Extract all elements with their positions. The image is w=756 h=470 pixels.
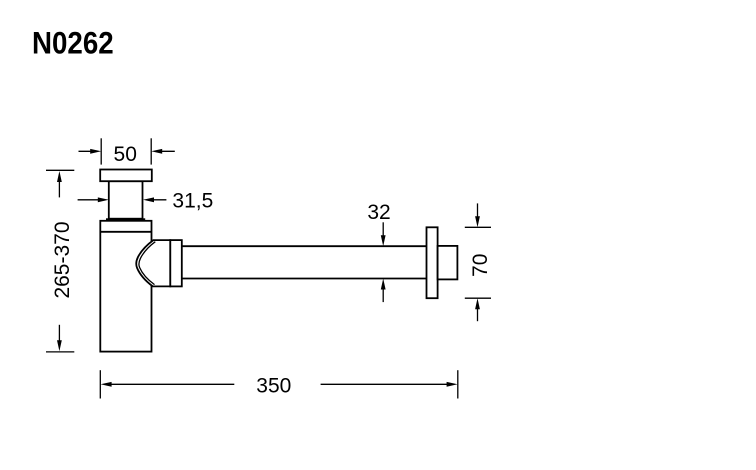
horizontal pipe: [182, 246, 427, 278]
wall flange: [427, 227, 438, 298]
dim 350 right tick: [457, 370, 459, 398]
dim 32 up arrow: [382, 289, 384, 302]
svg-text:50: 50: [114, 143, 137, 166]
bottle body: [100, 221, 151, 352]
title N0262: [32, 26, 114, 61]
dim 350 left tick: [99, 370, 101, 398]
elbow inner contour: [139, 242, 155, 285]
coupling nut: [170, 240, 182, 286]
dim 265-370 down arrow: [58, 325, 60, 341]
tube rim ring: [106, 218, 145, 221]
svg-text:265-370: 265-370: [51, 221, 74, 298]
dim 350 right segment: [321, 383, 447, 385]
dim 70 bottom tick: [465, 297, 491, 299]
inlet tube: [109, 181, 143, 219]
svg-text:350: 350: [256, 375, 291, 398]
dim 31,5 right arrow: [149, 199, 166, 201]
svg-text:32: 32: [367, 201, 390, 224]
elbow outlet: [136, 240, 170, 286]
dim 50 right arrow: [157, 150, 175, 152]
svg-text:N0262: N0262: [32, 26, 114, 61]
dim 70 down arrow: [477, 203, 479, 216]
dim 70 top tick: [465, 226, 491, 228]
dim 70 up arrow: [477, 309, 479, 321]
dim 32 down arrow: [382, 222, 384, 235]
dim 31,5 left arrow: [78, 199, 102, 201]
svg-text:70: 70: [469, 254, 492, 277]
top flange: [100, 170, 152, 182]
body collar line: [100, 231, 151, 233]
dim 350 left segment: [111, 383, 234, 385]
dim 50 extension lines: [101, 138, 151, 164]
dim 265-370 bottom tick: [46, 351, 74, 353]
dim 265-370 top tick: [46, 169, 74, 171]
dim 265-370 up arrow: [58, 182, 60, 197]
dim 50 left arrow: [79, 150, 96, 152]
svg-text:31,5: 31,5: [172, 189, 213, 212]
wall pipe stub: [438, 246, 458, 280]
